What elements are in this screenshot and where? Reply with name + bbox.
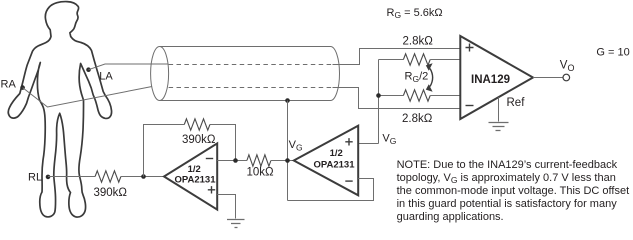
svg-text:2.8kΩ: 2.8kΩ — [402, 113, 433, 125]
U1 + sign — [208, 186, 215, 193]
feedback resistor 390k zigzag — [184, 119, 210, 130]
svg-text:Ref: Ref — [507, 97, 526, 109]
wire cable bottom to INA - input — [333, 88, 461, 109]
RG pins vertical wire — [378, 60, 380, 144]
resistor 390k (right-leg drive) zigzag — [95, 171, 121, 182]
shielded cable right end arc — [331, 47, 340, 101]
U1 - sign — [206, 158, 213, 160]
resistor 10k zigzag — [247, 155, 271, 166]
lead wire RA to cable — [23, 87, 152, 108]
U2 - sign — [345, 180, 352, 182]
svg-text:10kΩ: 10kΩ — [247, 167, 275, 179]
wire 10k to guard node — [271, 160, 294, 162]
op-amp U1 OPA2131 (left, output points left) — [164, 143, 217, 209]
wire RG midpoint to buffer + input — [358, 143, 378, 145]
svg-text:in this guard potential is sat: in this guard potential is satisfactory … — [397, 198, 618, 210]
svg-text:guarding applications.: guarding applications. — [397, 211, 504, 223]
ground (U1 + input) — [227, 220, 245, 228]
U1 + input wire to ground — [217, 195, 235, 219]
svg-text:G = 10: G = 10 — [596, 46, 629, 58]
electrode dot RA — [20, 85, 25, 90]
junction dot guard node VG — [285, 158, 290, 163]
U2 + sign — [345, 138, 352, 145]
INA - sign — [466, 105, 474, 107]
shielded cable shield top line — [160, 46, 331, 48]
feedback loop U1: up, over, down to - input — [144, 125, 236, 177]
INA + sign — [466, 44, 474, 52]
svg-text:RL: RL — [28, 172, 42, 184]
svg-text:RA: RA — [1, 79, 17, 91]
junction dot U1 output/feedback — [141, 174, 146, 179]
wire RL to 390k — [48, 176, 95, 178]
svg-text:2.8kΩ: 2.8kΩ — [403, 36, 434, 48]
electrode dot RL — [46, 175, 51, 180]
svg-text:390kΩ: 390kΩ — [182, 134, 216, 146]
cable inner conductor bottom (dashed) — [169, 87, 333, 89]
junction dot RG midpoint — [376, 93, 381, 98]
wire cable top to INA + input — [333, 49, 461, 65]
svg-text:NOTE: Due to the INA129’s curr: NOTE: Due to the INA129’s current-feedba… — [397, 159, 618, 171]
guard wire vertical — [287, 101, 289, 201]
shielded cable left end ellipse — [151, 47, 169, 101]
Ref pin wire — [498, 97, 500, 121]
junction dot on shield — [285, 98, 290, 103]
wire 390k to op-amp U1 output — [121, 176, 164, 178]
svg-text:1/2: 1/2 — [330, 148, 343, 159]
body outline — [8, 2, 111, 217]
resistor RG/2 top 2.8k zigzag — [403, 54, 430, 65]
op-amp U2 OPA2131 (buffer, output points left) — [294, 126, 358, 196]
resistor RG/2 top 2.8k wire left — [379, 59, 404, 61]
svg-text:LA: LA — [99, 70, 113, 82]
RG curved arrow — [430, 69, 433, 87]
svg-text:the common-mode input voltage.: the common-mode input voltage. This DC o… — [397, 185, 630, 197]
resistor RG/2 bottom 2.8k zigzag — [403, 90, 430, 101]
junction dot U1 - input — [233, 158, 238, 163]
svg-text:390kΩ: 390kΩ — [94, 187, 128, 199]
ground (Ref) — [489, 123, 509, 131]
resistor RG/2 top wire right — [430, 59, 460, 61]
output wire — [533, 77, 563, 79]
shielded cable shield bottom line — [160, 100, 331, 102]
resistor RG/2 bottom 2.8k wire left — [379, 95, 404, 97]
svg-text:topology, VG is approximately: topology, VG is approximately 0.7 V less… — [397, 172, 616, 185]
svg-text:INA129: INA129 — [471, 74, 510, 86]
wire U1 - input to 10k — [217, 160, 247, 162]
resistor RG/2 bottom wire right — [430, 95, 460, 97]
electrode dot LA — [86, 67, 91, 72]
svg-text:OPA2131: OPA2131 — [313, 159, 355, 170]
lead wire LA to cable — [89, 64, 169, 70]
op-amp U3 INA129 — [460, 36, 533, 119]
output terminal VO — [563, 74, 570, 81]
U2 feedback: - input right, down, left to guard vertical — [288, 179, 374, 201]
cable inner conductor top (dashed) — [169, 64, 333, 66]
svg-text:OPA2131: OPA2131 — [174, 174, 216, 185]
